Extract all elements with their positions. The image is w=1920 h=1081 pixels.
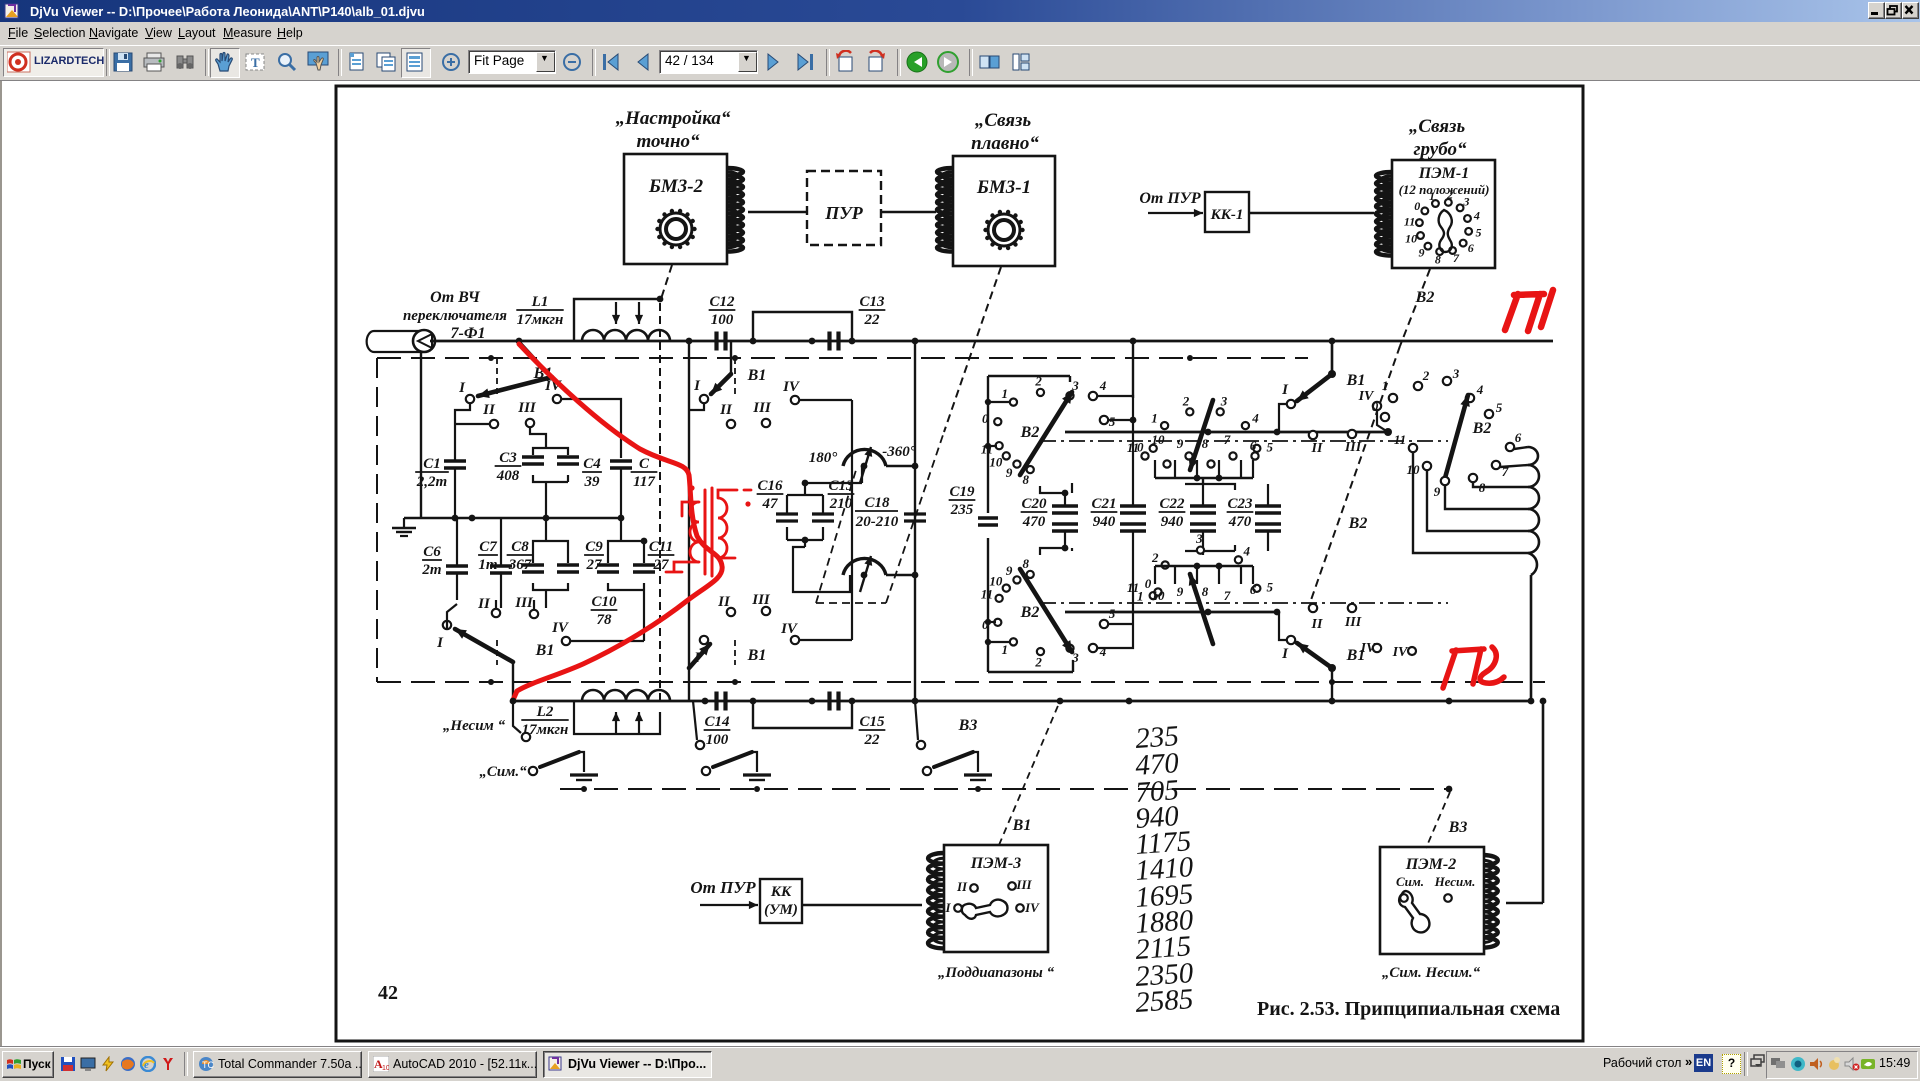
B2 cluster right top contacts (1381, 413, 1389, 421)
svg-text:III: III (1344, 615, 1362, 630)
svg-text:В2: В2 (1348, 515, 1368, 532)
dashed boundary П2 bottom (377, 681, 1545, 683)
svg-text:II: II (1311, 441, 1323, 456)
selector switch 2 (702, 767, 710, 775)
svg-text:В2: В2 (1020, 604, 1040, 621)
svg-text:плавно“: плавно“ (971, 133, 1039, 154)
stubs to bar (1155, 477, 1253, 479)
svg-text:9: 9 (1434, 484, 1441, 499)
Пуск button (2, 1051, 54, 1078)
svg-text:От ПУР: От ПУР (690, 878, 756, 897)
svg-text:408: 408 (496, 468, 520, 484)
dashed drop from switch (496, 358, 498, 395)
svg-text:39: 39 (584, 474, 601, 490)
middle cluster bottom (1150, 592, 1157, 599)
red annotation: long curve (513, 344, 722, 700)
red annotation: transformer sketch (705, 488, 712, 576)
svg-text:210: 210 (829, 496, 853, 512)
dashed parallelogram mechanical (816, 470, 856, 603)
svg-text:I: I (1281, 646, 1289, 662)
svg-text:235: 235 (950, 502, 974, 518)
svg-text:T: T (251, 55, 260, 70)
bypass loop under C15 (753, 701, 852, 728)
svg-text:10: 10 (1152, 432, 1166, 447)
svg-text:e: e (144, 1059, 149, 1071)
svg-text:5: 5 (1109, 606, 1116, 621)
section divider x915 (914, 341, 916, 701)
svg-text:4: 4 (1243, 543, 1251, 558)
svg-text:100: 100 (706, 732, 729, 748)
svg-text:117: 117 (633, 474, 655, 490)
app icon (4, 2, 22, 20)
coil on БМЗ-2 right edge (727, 168, 743, 252)
block БМЗ-1 (953, 156, 1055, 266)
inductor L2 (582, 690, 670, 701)
svg-text:10: 10 (1152, 588, 1166, 603)
B2 bank left lower contacts (994, 619, 1001, 626)
svg-text:С23: С23 (1227, 496, 1253, 512)
svg-text:IV: IV (1392, 645, 1409, 660)
coil on БМЗ-1 left edge (937, 168, 953, 252)
selector switch 1 (529, 767, 537, 775)
svg-text:От ВЧ: От ВЧ (430, 289, 481, 306)
svg-text:11: 11 (1404, 214, 1415, 228)
svg-text:10: 10 (1405, 231, 1417, 245)
svg-text:III: III (517, 400, 537, 416)
ПЭМ-2 rotor wrench (1399, 891, 1429, 932)
svg-text:Несим.: Несим. (1434, 874, 1476, 889)
B2 bus bottom line (1065, 611, 1278, 614)
block ПЭМ-2 (1380, 847, 1484, 954)
svg-text:0: 0 (1372, 399, 1379, 414)
svg-text:42: 42 (378, 982, 398, 1004)
dashed ganging line bottom (560, 788, 1449, 790)
svg-text:0: 0 (982, 617, 989, 632)
arc variable cap bottom (843, 558, 886, 575)
svg-text:6: 6 (1250, 582, 1257, 597)
svg-text:11: 11 (1127, 440, 1139, 455)
svg-text:С11: С11 (649, 539, 673, 555)
L1 tap arrows (615, 302, 617, 324)
arrow into КК УМ (700, 904, 758, 906)
svg-text:1: 1 (1002, 386, 1009, 401)
inductor L1 (582, 330, 670, 341)
block ПУР (dashed) (807, 171, 881, 245)
svg-text:С13: С13 (859, 294, 885, 310)
svg-text:2т: 2т (421, 562, 441, 578)
svg-text:В2: В2 (1020, 424, 1040, 441)
red annotation П1 (1505, 290, 1553, 331)
svg-text:9: 9 (1006, 465, 1013, 480)
middle cluster top (1150, 445, 1157, 452)
svg-text:100: 100 (711, 312, 734, 328)
svg-text:6: 6 (1468, 241, 1474, 255)
coil on ПЭМ-2 right (1484, 855, 1498, 948)
svg-text:8: 8 (1435, 252, 1441, 266)
svg-text:470: 470 (1228, 514, 1252, 530)
svg-text:3: 3 (1462, 195, 1469, 209)
svg-text:II: II (482, 402, 496, 418)
svg-text:„Сим.“: „Сим.“ (479, 764, 527, 780)
svg-text:4: 4 (1473, 209, 1480, 223)
svg-text:С7: С7 (479, 539, 497, 555)
svg-text:1: 1 (1002, 642, 1009, 657)
L2 arrows up (615, 712, 617, 734)
dashed drop bottom switch (496, 640, 498, 665)
svg-text:I: I (458, 380, 466, 396)
svg-text:2: 2 (1182, 393, 1190, 408)
coil on ПЭМ-3 left (928, 853, 944, 948)
arc 180 deg variable cap top (843, 449, 886, 466)
svg-text:КК-1: КК-1 (1210, 207, 1244, 223)
svg-text:„Поддиапазоны “: „Поддиапазоны “ (938, 965, 1055, 981)
svg-text:(12 положений): (12 положений) (1399, 182, 1490, 197)
main bus П1 (430, 340, 1553, 343)
svg-text:L1: L1 (531, 294, 549, 310)
svg-text:точно“: точно“ (636, 131, 700, 152)
svg-text:6: 6 (1515, 430, 1522, 445)
svg-text:В2: В2 (1472, 420, 1492, 437)
svg-text:3: 3 (1220, 393, 1228, 408)
svg-text:7: 7 (1224, 588, 1231, 603)
svg-text:L2: L2 (536, 704, 554, 720)
middle cluster top inner contacts (1141, 452, 1148, 459)
svg-text:III: III (1344, 440, 1362, 455)
svg-text:С8: С8 (511, 539, 529, 555)
B2 bus top line (1065, 431, 1388, 434)
right vertical bus2 to ПЭМ-2 (1542, 701, 1545, 903)
svg-text:С6: С6 (423, 544, 441, 560)
svg-text:С: С (639, 456, 650, 472)
svg-text:9: 9 (1177, 436, 1184, 451)
svg-text:С20: С20 (1021, 496, 1047, 512)
svg-text:11: 11 (1127, 580, 1139, 595)
svg-text:2: 2 (1151, 550, 1159, 565)
selector switch 3 (923, 767, 931, 775)
svg-text:С15: С15 (859, 714, 885, 730)
wire КК-1 to ПЭМ-1 (1249, 212, 1374, 214)
selector switch 2 contact from bus (696, 741, 704, 749)
block БМЗ-2 (624, 154, 727, 264)
svg-text:6: 6 (1250, 438, 1257, 453)
ПЭМ-3 rotor wrench (962, 900, 1008, 919)
svg-text:I: I (693, 378, 701, 394)
svg-text:5: 5 (1475, 226, 1481, 240)
switch B1 section1 top: contacts I II III IV (519, 341, 552, 377)
svg-text:I: I (944, 900, 951, 915)
ground symbol (403, 518, 405, 528)
C20 top bracket 9-8 (1040, 483, 1072, 493)
red annotation П2 (1443, 647, 1504, 688)
svg-text:В3: В3 (958, 717, 978, 734)
svg-text:II: II (956, 879, 968, 894)
L2 tap bracket (574, 701, 660, 734)
svg-text:470: 470 (1022, 514, 1046, 530)
L1 tap bracket (574, 299, 660, 341)
svg-text:БМ3-2: БМ3-2 (648, 176, 704, 197)
svg-text:От ПУР: От ПУР (1139, 190, 1201, 207)
svg-text:С4: С4 (583, 456, 601, 472)
svg-text:IV: IV (551, 620, 570, 636)
svg-text:11: 11 (981, 587, 993, 602)
svg-text:2: 2 (1422, 368, 1430, 383)
ПЭМ-1 rotor (1439, 210, 1452, 252)
wire ПУР to БМЗ-1 (881, 211, 936, 213)
svg-text:2: 2 (1034, 654, 1042, 669)
svg-text:С13: С13 (828, 478, 854, 494)
stubs from 4,5 to x1133 (1097, 396, 1133, 432)
svg-text:4: 4 (1099, 378, 1107, 393)
svg-text:III: III (751, 592, 771, 608)
svg-text:С10: С10 (591, 594, 617, 610)
svg-text:„Связь: „Связь (1409, 116, 1466, 137)
svg-text:II: II (477, 596, 491, 612)
svg-text:4: 4 (1099, 644, 1107, 659)
coil nested loops (1413, 453, 1528, 553)
svg-text:940: 940 (1093, 514, 1116, 530)
svg-text:Рис. 2.53. Припципиальная схем: Рис. 2.53. Припципиальная схема (1257, 998, 1560, 1020)
node x1133 on bus (1130, 338, 1137, 345)
wire БМЗ-2 to ПУР (748, 211, 807, 213)
svg-text:20-210: 20-210 (855, 514, 899, 530)
svg-text:5: 5 (1267, 579, 1274, 594)
svg-text:0: 0 (982, 411, 989, 426)
svg-text:II: II (1311, 617, 1323, 632)
svg-text:1: 1 (1151, 411, 1158, 426)
bypass loop over C13 (753, 312, 852, 341)
svg-text:В3: В3 (1448, 819, 1468, 836)
svg-text:В1: В1 (1346, 372, 1366, 389)
svg-text:С9: С9 (585, 539, 603, 555)
svg-text:5: 5 (1267, 439, 1274, 454)
block КК-1 (1205, 192, 1249, 232)
svg-text:II: II (717, 594, 731, 610)
svg-text:С18: С18 (864, 495, 890, 511)
svg-text:В2: В2 (1415, 289, 1435, 306)
C22 C23 box (1203, 478, 1268, 555)
svg-text:7: 7 (1224, 432, 1231, 447)
svg-text:ПЭМ-3: ПЭМ-3 (970, 855, 1021, 872)
bus 2 (513, 700, 1533, 703)
svg-text:1: 1 (1429, 189, 1435, 203)
svg-text:В1: В1 (1012, 817, 1032, 834)
svg-text:III: III (514, 595, 534, 611)
svg-text:180°: 180° (809, 450, 838, 466)
svg-text:8: 8 (1023, 472, 1030, 487)
svg-text:С3: С3 (499, 450, 517, 466)
svg-text:7-Ф1: 7-Ф1 (451, 325, 486, 342)
svg-text:„Настройка“: „Настройка“ (616, 108, 731, 129)
switch B1 section2 bottom (700, 636, 708, 644)
capacitor C3 group box (533, 448, 568, 482)
svg-text:I: I (1281, 382, 1289, 398)
coil right arcs (1528, 447, 1538, 465)
C20 bottom bracket 9-8 (1040, 548, 1072, 555)
dash-dot line bottom (1040, 602, 1448, 604)
node x753 (750, 338, 757, 345)
wire КК to ПЭМ-3 (802, 904, 922, 906)
svg-text:8: 8 (1023, 556, 1030, 571)
vertical x1133 bus to B2 line (1132, 341, 1134, 398)
svg-text:8: 8 (1202, 584, 1209, 599)
svg-text:С19: С19 (949, 484, 975, 500)
svg-text:0: 0 (1414, 199, 1420, 213)
svg-text:3: 3 (1195, 531, 1203, 546)
svg-text:22: 22 (864, 312, 881, 328)
svg-text:(УМ): (УМ) (764, 902, 798, 918)
svg-text:5: 5 (1109, 414, 1116, 429)
wire from connector down (420, 352, 422, 518)
svg-text:1: 1 (1382, 378, 1389, 393)
svg-text:47: 47 (762, 496, 779, 512)
switch B1 section4 top (1287, 400, 1295, 408)
svg-text:-360°: -360° (882, 444, 916, 460)
dashed link ПЭМ-1 to В2 (1400, 269, 1430, 346)
svg-text:С1: С1 (423, 456, 441, 472)
svg-text:IV: IV (780, 621, 799, 637)
ПЭМ-1 dial contacts 0-11 (1445, 199, 1452, 206)
node x915 (912, 338, 919, 345)
fit page combo (468, 50, 556, 74)
selector switch 3 contact (917, 741, 925, 749)
node at L1 input (516, 338, 523, 345)
svg-text:2585: 2585 (1134, 983, 1194, 1019)
svg-text:III: III (752, 400, 772, 416)
svg-text:С16: С16 (757, 478, 783, 494)
right vertical to bus2 (1530, 575, 1533, 701)
tray (1766, 1051, 1918, 1079)
svg-text:7: 7 (1453, 251, 1460, 265)
svg-text:I: I (436, 635, 444, 651)
dashed link БМЗ-1 down (944, 267, 1001, 432)
svg-text:4: 4 (1476, 382, 1484, 397)
page border frame (336, 86, 1583, 1041)
B2 wiper right (1445, 395, 1468, 478)
left bank stubs (988, 401, 1010, 403)
task buttons (193, 1051, 362, 1078)
svg-text:грубо“: грубо“ (1414, 139, 1467, 160)
svg-text:„Сим. Несим.“: „Сим. Несим.“ (1382, 965, 1481, 981)
dashed boundary П1 top (377, 357, 1308, 359)
coil nest contacts (1409, 444, 1417, 452)
svg-text:5: 5 (1496, 400, 1503, 415)
svg-text:В1: В1 (535, 642, 555, 659)
node x1332 (1329, 338, 1336, 345)
dashed boundary left (376, 358, 378, 682)
wiper middle top (1190, 400, 1213, 470)
svg-text:78: 78 (597, 612, 613, 628)
switch B1 section4 bottom (1287, 636, 1295, 644)
dash-dot line top (1040, 440, 1448, 442)
svg-text:ПЭМ-2: ПЭМ-2 (1405, 856, 1456, 873)
svg-text:10: 10 (989, 454, 1003, 469)
svg-text:22: 22 (864, 732, 881, 748)
svg-text:С12: С12 (709, 294, 735, 310)
svg-text:4: 4 (1251, 411, 1259, 426)
svg-text:10: 10 (382, 1065, 389, 1072)
arrow into КК-1 (1148, 212, 1203, 214)
switch B1 section1 bottom (443, 621, 451, 629)
dashed В3 to ПЭМ-2 (1426, 792, 1450, 848)
svg-text:2: 2 (1034, 374, 1042, 389)
ground bus (404, 517, 621, 519)
svg-text:С22: С22 (1159, 496, 1185, 512)
right side (1603, 1056, 1681, 1070)
switch B1 section2 top (700, 395, 708, 403)
svg-text:III: III (1015, 877, 1032, 892)
wires of section1 contacts (455, 403, 470, 458)
svg-text:IV: IV (1024, 900, 1040, 915)
dashed section divider x660 (659, 303, 661, 700)
vertical x852 (851, 400, 853, 627)
dashed link БМЗ-2 to L1 (661, 265, 672, 299)
Несим contact (522, 733, 530, 741)
svg-text:В1: В1 (747, 647, 767, 664)
block ПЭМ-1 (12 положений) (1392, 160, 1495, 268)
dashed ПЭМ-3 link (999, 701, 1060, 845)
svg-text:В1: В1 (747, 367, 767, 384)
block ПЭМ-3 (944, 845, 1048, 952)
svg-text:ПЭМ-1: ПЭМ-1 (1418, 165, 1469, 182)
coax connector (367, 331, 422, 352)
svg-text:IV: IV (782, 379, 801, 395)
svg-text:3: 3 (1452, 366, 1460, 381)
svg-text:9: 9 (1177, 584, 1184, 599)
svg-text:„Несим “: „Несим “ (443, 718, 506, 734)
wire ПЭМ-2 to right bus (1506, 902, 1543, 904)
svg-text:940: 940 (1161, 514, 1184, 530)
B2 wiper top (1020, 392, 1072, 475)
svg-text:17мкгн: 17мкгн (517, 312, 564, 328)
lizardtech logo button (3, 48, 104, 77)
svg-text:II: II (719, 402, 733, 418)
svg-text:IV: IV (1360, 641, 1377, 656)
coil on ПЭМ-1 left edge (1376, 172, 1392, 256)
svg-text:С14: С14 (704, 714, 730, 730)
block КК (УМ) (760, 879, 802, 923)
svg-text:„Связь: „Связь (975, 110, 1032, 131)
svg-text:9: 9 (1419, 245, 1425, 259)
B2 bank left frame (987, 376, 989, 513)
B2 bank left upper contacts (994, 418, 1001, 425)
svg-text:БМ3-1: БМ3-1 (976, 177, 1031, 198)
svg-text:С21: С21 (1091, 496, 1116, 512)
svg-text:Сим.: Сим. (1396, 874, 1424, 889)
svg-text:переключателя: переключателя (403, 308, 507, 324)
svg-text:11: 11 (1394, 432, 1406, 447)
svg-text:10: 10 (989, 574, 1003, 589)
svg-text:2: 2 (1446, 188, 1453, 202)
page combo (659, 50, 758, 74)
svg-text:TC: TC (202, 1060, 214, 1070)
svg-text:9: 9 (1006, 563, 1013, 578)
svg-text:КК: КК (770, 884, 792, 900)
svg-text:ПУР: ПУР (824, 203, 864, 223)
